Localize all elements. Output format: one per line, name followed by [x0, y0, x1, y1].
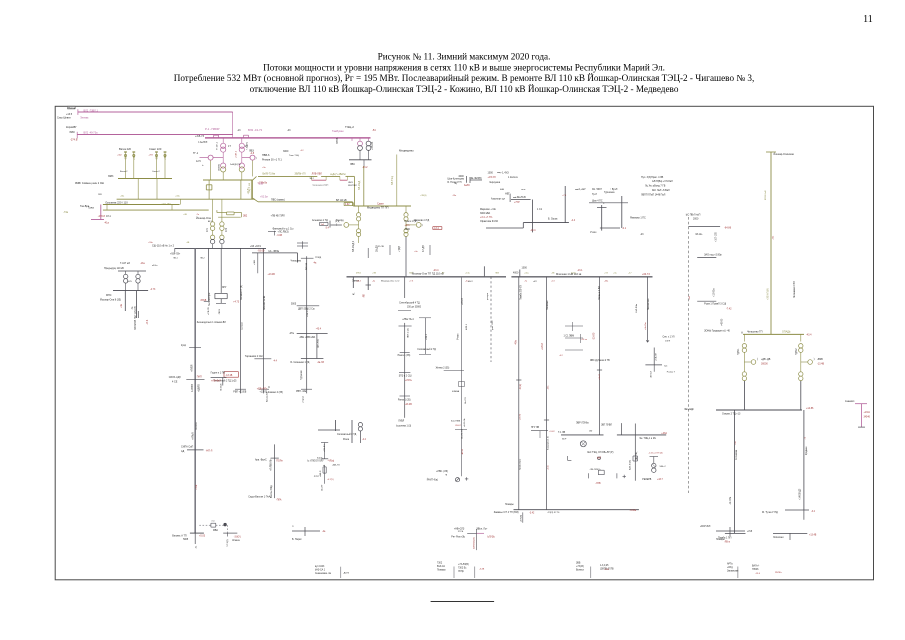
svg-text:Элеваа: Элеваа: [80, 116, 89, 119]
svg-text:⟩: ⟩: [422, 223, 423, 227]
svg-text:-19-7Ла: -19-7Ла: [730, 496, 732, 505]
svg-text:ЗПЗ и 2 СШ: ЗПЗ и 2 СШ: [399, 376, 412, 378]
svg-text:ТДН-1: ТДН-1: [738, 348, 740, 355]
svg-text:ЗАО под +2.80р: ЗАО под +2.80р: [704, 254, 722, 257]
svg-text:+ЛУВЛ: +ЛУВЛ: [191, 364, 193, 372]
svg-text:ТГ-1: ТГ-1: [193, 152, 199, 155]
svg-text:М. Ту ма У ПД: М. Ту ма У ПД: [762, 511, 778, 514]
svg-text:ЛВС: ЛВС: [350, 163, 355, 166]
svg-text:4 СЕ: 4 СЕ: [172, 381, 178, 384]
svg-text:⟶ -1.4УЗ: ⟶ -1.4УЗ: [497, 171, 509, 175]
svg-text:Медведево: Медведево: [399, 149, 414, 153]
svg-text:ВЛ-МЕД 2: ВЛ-МЕД 2: [352, 240, 355, 252]
svg-text:+13 Ла: +13 Ла: [248, 187, 250, 195]
svg-text:ОПАДЬ: ОПАДЬ: [782, 330, 791, 333]
svg-text:Азановп: Азановп: [845, 400, 855, 403]
svg-text:⟨+ д: ⟨+ д: [335, 220, 340, 223]
svg-text:-ВУЗ-Л: -ВУЗ-Л: [651, 370, 653, 378]
svg-text:рем. ЛЭП: рем. ЛЭП: [492, 320, 494, 330]
svg-text:+73(-В): +73(-В): [576, 566, 584, 568]
svg-text:-4.7(У): -4.7(У): [327, 479, 334, 481]
svg-text:МПС: МПС: [106, 294, 112, 297]
svg-text:пВ-Л: пВ-Л: [468, 281, 473, 283]
svg-text:-13.2: -13.2: [362, 166, 368, 169]
svg-text:ЭВС Дубники 2 ТВ: ЭВС Дубники 2 ТВ: [590, 360, 610, 362]
svg-text:2000: 2000: [693, 218, 699, 221]
svg-text:+Л-УЗ: +Л-УЗ: [520, 413, 522, 420]
svg-text:150 дп 30000: 150 дп 30000: [407, 306, 422, 308]
svg-text:Силикатный 8 ТД: Силикатный 8 ТД: [337, 433, 357, 436]
svg-text:Т-107 м3: Т-107 м3: [120, 262, 131, 265]
svg-text:+ЛВ(3): +ЛВ(3): [420, 195, 427, 197]
svg-text:7302 Ес: 7302 Ес: [458, 568, 467, 570]
svg-text:1000: 1000: [522, 267, 528, 270]
svg-text:+АВ-ЛЗ: +АВ-ЛЗ: [332, 463, 340, 466]
svg-text:Тань ТЭЦ: Тань ТЭЦ: [289, 155, 299, 157]
svg-text:-49а: -49а: [515, 340, 518, 345]
svg-text:+АЛ: +АЛ: [688, 295, 691, 300]
svg-text:+ЛЗ-В: +ЛЗ-В: [461, 298, 464, 305]
svg-text:+АПъЛ: +АПъЛ: [191, 432, 194, 440]
svg-text:+Л-В: +Л-В: [747, 531, 753, 533]
svg-text:⟶ 1,+ЕУ: ⟶ 1,+ЕУ: [575, 187, 586, 191]
svg-text:-3.8(У): -3.8(У): [234, 537, 241, 539]
svg-text:Руэм 1 ПравЛ 3 СШ: Руэм 1 ПравЛ 3 СШ: [704, 303, 726, 306]
svg-text:+13В: +13В: [258, 184, 264, 186]
svg-text:1000: 1000: [488, 172, 494, 175]
svg-text:Йошкар-Олинская: Йошкар-Олинская: [774, 153, 795, 156]
svg-text:+ЕВ-Л: +ЕВ-Л: [541, 343, 544, 350]
svg-text:+ЛС ЛВ(3): +ЛС ЛВ(3): [278, 232, 289, 234]
svg-text:+13.4В: +13.4В: [404, 404, 412, 406]
svg-text:1 Колхоз: 1 Колхоз: [508, 176, 518, 179]
svg-text:+13.та: +13.та: [581, 339, 588, 341]
svg-text:-13.4: -13.4: [147, 319, 149, 325]
svg-text:3000: 3000: [405, 228, 411, 231]
svg-text:ВЛ-ТЭЦ: ВЛ-ТЭЦ: [391, 176, 394, 185]
svg-text:ЛВУ-2 (3): ЛВУ-2 (3): [408, 328, 410, 338]
svg-text:+БСП-БЛ: +БСП-БЛ: [700, 525, 711, 528]
svg-text:⟩: ⟩: [814, 357, 815, 361]
svg-text:Кожино 4 (35): Кожино 4 (35): [268, 391, 283, 394]
svg-text:-АЧ73: -АЧ73: [343, 572, 350, 575]
svg-text:+ЛВ: +ЛВ: [372, 273, 377, 275]
svg-text:⟂: ⟂: [603, 202, 605, 205]
svg-text:11: 11: [863, 14, 873, 25]
svg-text:4.92: 4.92: [345, 204, 350, 206]
svg-text:Чернушка: Чернушка: [489, 181, 501, 184]
svg-text:-13а: -13а: [140, 263, 145, 265]
svg-text:+ЛЗ-ЛЗ: +ЛЗ-ЛЗ: [324, 444, 326, 452]
svg-text:АТ1: АТ1: [206, 227, 209, 232]
svg-text:Пул. 3(Х)Прап. 4 ЛВ: Пул. 3(Х)Прап. 4 ЛВ: [641, 176, 664, 179]
svg-text:ВЛ2 -73ВЛ.1: ВЛ2 -73ВЛ.1: [84, 109, 99, 112]
svg-text:⟨: ⟨: [336, 223, 337, 227]
svg-text:-4.73: -4.73: [150, 289, 156, 291]
svg-text:-ПЛА: -ПЛА: [276, 499, 282, 502]
svg-text:-41а: -41а: [104, 222, 109, 225]
svg-text:+ЛВ-УЗ: +ЛВ-УЗ: [307, 309, 309, 317]
svg-text:ЛЛУГ: ЛЛУГ: [314, 476, 320, 478]
svg-text:+14 ЕВ-ДЗ: +14 ЕВ-ДЗ: [800, 488, 802, 500]
svg-text:+3.42: +3.42: [549, 431, 555, 433]
svg-text:МВА: МВА: [213, 529, 218, 532]
svg-text:ЧЕг+ЕДп: ЧЕг+ЕДп: [684, 408, 695, 411]
svg-text:ЗГУБ: ЗГУБ: [458, 531, 464, 533]
svg-text:Помары: Помары: [437, 570, 446, 572]
svg-text:-ЛЗ(В): -ЛЗ(В): [520, 384, 522, 390]
svg-text:ВЛ2 -43-73: ВЛ2 -43-73: [248, 128, 263, 132]
svg-text:4Н52: 4Н52: [356, 273, 362, 275]
svg-text:Рн+ Роил-ЗЬ: Рн+ Роил-ЗЬ: [451, 536, 465, 538]
svg-text:3000 кВА: 3000 кВА: [480, 212, 491, 215]
svg-text:+ЛУВ: +ЛУВ: [196, 484, 198, 490]
svg-text:РВП +13.ЕВ: РВП +13.ЕВ: [233, 392, 246, 394]
svg-text:Йошкар-Ола: Йошкар-Ола: [196, 217, 211, 220]
svg-text:+43А: +43А: [661, 432, 667, 435]
svg-text:Т-1 ЛВ: Т-1 ЛВ: [558, 432, 566, 434]
svg-text:+Л ЛВ(АЛ)+: +Л ЛВ(АЛ)+: [270, 458, 273, 471]
svg-text:Λ: Λ: [741, 331, 743, 335]
svg-text:-4.4: -4.4: [571, 219, 576, 222]
svg-text:РЕЗЕРВ: РЕЗЕРВ: [642, 479, 651, 481]
svg-text:ТЭЦ-2: ТЭЦ-2: [345, 125, 354, 129]
svg-text:-ЧЛ(а): -ЧЛ(а): [328, 460, 335, 462]
svg-text:+ЗВ1: +ЗВ1: [254, 259, 256, 265]
svg-text:ЗЗЛ-ЛЛм: ЗЗЛ-ЛЛм: [636, 303, 638, 313]
svg-text:ЗЬ-ЛЗ-УЗ: ЗЬ-ЛЗ-УЗ: [461, 429, 463, 439]
svg-text:-302: -302: [126, 155, 128, 160]
svg-text:Λ: Λ: [268, 385, 270, 389]
svg-text:-13.4В: -13.4В: [817, 363, 824, 366]
svg-text:Спас-Шевел: Спас-Шевел: [57, 116, 71, 119]
svg-text:-13.1а 0ТЛ (3): -13.1а 0ТЛ (3): [649, 453, 663, 455]
svg-text:Ронга: Ронга: [343, 439, 350, 441]
svg-text:Ял. 5697: Ял. 5697: [592, 188, 602, 191]
svg-text:ВАЛ+/-: ВАЛ+/-: [752, 565, 760, 568]
svg-text:2xАТДЦТН: 2xАТДЦТН: [230, 163, 241, 166]
svg-text:Шап 4 ПС: Шап 4 ПС: [592, 201, 603, 203]
svg-text:Сдвиг: Сдвиг: [377, 203, 384, 206]
svg-text:Медведево ТП ПП: Медведево ТП ПП: [367, 207, 389, 210]
svg-text:+ПВ 4В 73РЛ: +ПВ 4В 73РЛ: [271, 216, 286, 218]
svg-text:-2Тм: -2Тм: [289, 333, 294, 335]
svg-text:◄: ◄: [445, 474, 447, 477]
svg-text:+ЕУ(Л): +ЕУ(Л): [521, 515, 523, 522]
svg-text:ВЛ 110 кВ: ВЛ 110 кВ: [765, 190, 767, 200]
svg-text:ПАП: ПАП: [197, 376, 202, 379]
svg-text:-293: -293: [157, 155, 159, 160]
svg-text:+ЛУЗ+: +ЛУЗ+: [405, 380, 413, 382]
svg-text:Закамье С/Т 4 ТП (ЮЗ): Закамье С/Т 4 ТП (ЮЗ): [494, 512, 519, 514]
svg-text:Лн-ВчЛ: Лн-ВчЛ: [221, 383, 223, 391]
svg-text:▲: ▲: [323, 464, 325, 467]
svg-text:Апшак: Апшак: [305, 262, 308, 270]
svg-text:1-3,0,25: 1-3,0,25: [600, 565, 609, 567]
svg-text:-4.1: -4.1: [622, 227, 627, 230]
svg-text:+92.5м: +92.5м: [260, 196, 268, 199]
svg-text:Вятка: Вятка: [68, 106, 75, 110]
svg-text:РЕЛЕ+: РЕЛЕ+: [775, 572, 783, 574]
svg-text:+ЬУЗ-Ль: +ЬУЗ-Ль: [464, 417, 466, 427]
svg-text:Звенигово: Звенигово: [647, 298, 650, 310]
svg-text:Силикат 8 ТД: Силикат 8 ТД: [241, 285, 243, 300]
svg-text:ВчЗ-СА: ВчЗ-СА: [437, 565, 445, 568]
svg-text:РВП -43а: РВП -43а: [296, 391, 307, 393]
svg-text:35-ЛВ: 35-ЛВ: [378, 246, 384, 248]
svg-text:ЗЬ-ЛУ: ЗЬ-ЛУ: [322, 484, 324, 491]
svg-text:ЛВПП ГЛаП 1448 ПаЛ: ЛВПП ГЛаП 1448 ПаЛ: [641, 194, 666, 197]
svg-text:4000: 4000: [458, 175, 464, 178]
svg-text:ЗРУ: ЗРУ: [222, 287, 227, 289]
svg-text:⟩: ⟩: [256, 156, 257, 160]
svg-text:вуп 1643: вуп 1643: [315, 566, 325, 568]
svg-text:Б. Орша: Б. Орша: [548, 218, 558, 221]
svg-text:АЛгП(Ва) +УЛ-ЛаЛ: АЛгП(Ва) +УЛ-ЛаЛ: [652, 180, 673, 183]
svg-text:ЬкЛ: ЬкЛ: [597, 458, 602, 460]
svg-text:Эн. ТЭЦ-1 и Мз: Эн. ТЭЦ-1 и Мз: [639, 438, 656, 440]
svg-text:-3.42а: -3.42а: [630, 510, 637, 512]
svg-text:Сосновка: Сосновка: [736, 449, 738, 460]
svg-text:ГТ-АТ-1: ГТ-АТ-1: [216, 141, 219, 150]
svg-text:Б. Парат: Б. Парат: [292, 538, 303, 541]
svg-text:+41а-26а: +41а-26а: [161, 203, 172, 206]
svg-text:2x25: 2x25: [127, 281, 133, 283]
svg-text:ЦВг-ЛЗм: ЦВг-ЛЗм: [318, 339, 320, 348]
svg-text:ЗнС ТЭЦ, ОЛ ОБ+ЛР (Р): ЗнС ТЭЦ, ОЛ ОБ+ЛР (Р): [587, 452, 613, 454]
svg-text:+АВ=ВкЛ: +АВ=ВкЛ: [211, 380, 221, 383]
svg-text:+ЕВ+ЛЛ+: +ЕВ+ЛЛ+: [257, 388, 268, 391]
svg-text:СШ-Л: СШ-Л: [455, 425, 461, 427]
svg-text:ЬаЛС: ЬаЛС: [464, 185, 470, 187]
svg-text:+АВ-Л: +АВ-Л: [319, 470, 322, 477]
svg-text:+83(-): +83(-): [727, 567, 733, 569]
svg-text:СШ-110 кВ № 1 и 2: СШ-110 кВ № 1 и 2: [152, 245, 175, 248]
svg-text:-8МВ: -8МВ: [817, 358, 823, 361]
svg-text:ЬС ПВгЛ №П: ЬС ПВгЛ №П: [686, 214, 701, 217]
svg-text:Так-Вра: Так-Вра: [80, 205, 90, 208]
svg-text:Б. Ноля 4 ТП: Б. Ноля 4 ТП: [448, 182, 462, 184]
svg-text:7302: 7302: [437, 563, 443, 565]
svg-text:+43.7: +43.7: [657, 479, 664, 481]
svg-text:ЗВБ: ЗВБ: [576, 563, 581, 565]
svg-text:+14.86: +14.86: [806, 407, 814, 410]
svg-text:34546: 34546: [864, 417, 871, 419]
svg-text:+ЛВС (-ЛЗ): +ЛВС (-ЛЗ): [436, 471, 448, 473]
svg-text:+41а: +41а: [134, 154, 136, 160]
svg-text:+64.73: +64.73: [642, 273, 650, 276]
svg-text:+УЗ-УЛ: +УЗ-УЛ: [488, 176, 497, 179]
svg-text:Ьсшнева 1 (3): Ьсшнева 1 (3): [396, 425, 411, 427]
svg-text:47-ДВ: 47-ДВ: [422, 245, 425, 252]
svg-text:Киров/ВГ: Киров/ВГ: [66, 126, 77, 129]
svg-text:Годен и 1 ПП: Годен и 1 ПП: [211, 372, 226, 375]
svg-text:Сев. з 1 УЛ: Сев. з 1 УЛ: [663, 337, 675, 339]
svg-text:Ара -ВалС: Ара -ВалС: [255, 459, 267, 462]
svg-text:Апшак-Пеляк: Апшак-Пеляк: [263, 295, 266, 310]
svg-text:Совет-2: Совет-2: [152, 171, 160, 173]
svg-text:3983: 3983: [108, 175, 114, 178]
svg-text:ЗВУ: ЗВУ: [98, 194, 103, 196]
svg-text:+4В: +4В: [183, 214, 187, 216]
svg-text:Кокшайск 1 В: Кокшайск 1 В: [547, 436, 550, 450]
svg-text:+3.4 +7.7%: +3.4 +7.7%: [480, 216, 493, 219]
svg-text:Зеленодольск 1 Апаево-ВЛ: Зеленодольск 1 Апаево-ВЛ: [197, 321, 227, 324]
svg-text:-13.4: -13.4: [356, 281, 362, 283]
svg-text:Лопатино: Лопатино: [773, 536, 784, 539]
svg-text:Туршинка: Туршинка: [604, 192, 615, 194]
svg-text:+43-80: +43-80: [722, 318, 724, 326]
svg-text:ТДН-2: ТДН-2: [796, 348, 798, 355]
svg-text:Учхоз: Учхоз: [590, 231, 596, 234]
svg-text:-АП-В: -АП-В: [461, 449, 464, 455]
svg-text:АД: АД: [181, 450, 185, 453]
svg-text:+4.73: +4.73: [233, 302, 240, 304]
svg-text:Пемба ЕВ-УЗ: Пемба ЕВ-УЗ: [520, 285, 523, 300]
svg-text:ЧЕ-ЧЕЛ(В): ЧЕ-ЧЕЛ(В): [470, 178, 482, 180]
svg-text:-7.42: -7.42: [726, 308, 732, 311]
svg-text:Помары: Помары: [716, 539, 725, 541]
svg-text:4НВ: 4НВ: [500, 189, 505, 191]
svg-text:+ЗВ-ЛЗ: +ЗВ-ЛЗ: [371, 141, 374, 150]
svg-text:Помары: Помары: [505, 504, 514, 506]
svg-text:-3.4В: -3.4В: [479, 569, 485, 571]
svg-text:СШ 150: СШ 150: [196, 422, 198, 430]
svg-text:Лц Хв. рВонд 7 ГВ: Лц Хв. рВонд 7 ГВ: [645, 185, 666, 188]
svg-text:ЗОНЫ Градация и1 -40: ЗОНЫ Градация и1 -40: [704, 330, 730, 333]
svg-text:+4а-Л: +4а-Л: [599, 374, 601, 380]
svg-text:ЗВ2: ЗВ2: [243, 216, 248, 218]
svg-text:-ЛВ: -ЛВ: [364, 294, 366, 298]
svg-text:-23-ЛЗ: -23-ЛЗ: [593, 332, 596, 340]
svg-text:ПГУ ЛВ: ПГУ ЛВ: [531, 427, 539, 429]
svg-text:Вятка-2: Вятка-2: [120, 171, 128, 173]
svg-text:+3-В-73: +3-В-73: [195, 135, 205, 138]
svg-text:Семеновка -4а: Семеновка -4а: [315, 573, 332, 575]
svg-text:Женка 2 (35): Женка 2 (35): [436, 368, 450, 370]
svg-text:ЛЛВ-ЛВЛ: ЛЛВ-ЛВЛ: [312, 173, 323, 176]
svg-text:-270.8: -270.8: [98, 215, 106, 218]
svg-text:+4а-Лм: +4а-Лм: [645, 322, 647, 330]
svg-text:Потребление 532 МВт (основной: Потребление 532 МВт (основной прогноз), …: [174, 73, 755, 83]
svg-text:пВг: пВг: [589, 431, 593, 433]
svg-text:АВЬ -2586 кВА: АВЬ -2586 кВА: [300, 336, 316, 339]
svg-text:-73а: -73а: [63, 211, 69, 214]
svg-text:Резерв 30 +1 П.1: Резерв 30 +1 П.1: [262, 159, 282, 162]
svg-text:+13 т: +13 т: [405, 224, 412, 227]
svg-text:+93б-ЛЗ+: +93б-ЛЗ+: [170, 254, 181, 256]
svg-text:+: +: [202, 163, 204, 167]
svg-text:-93.69: -93.69: [258, 250, 265, 253]
svg-text:+ЦВЛО: +ЦВЛО: [198, 384, 200, 392]
svg-text:-2Л(Л) 37.76: -2Л(Л) 37.76: [547, 512, 560, 514]
svg-text:+40а: +40а: [165, 154, 167, 160]
svg-text:Сентябрьский 4 ТД: Сентябрьский 4 ТД: [399, 302, 420, 305]
svg-text:-3.42: -3.42: [529, 512, 535, 514]
svg-text:+5.03: +5.03: [199, 535, 206, 538]
svg-text:отключение ВЛ 110 кВ Йошкар-Ол: отключение ВЛ 110 кВ Йошкар-Олинская ТЭЦ…: [250, 84, 679, 94]
svg-text:Учхоз: Учхоз: [457, 334, 460, 340]
svg-text:Ронга 1 (35): Ронга 1 (35): [398, 400, 411, 402]
svg-text:+НВ+СЛЗ: +НВ+СЛЗ: [454, 528, 465, 530]
svg-text:4000: 4000: [513, 272, 519, 275]
svg-text:ВЛ 110 кВ: ВЛ 110 кВ: [336, 200, 347, 202]
svg-text:ЛУПр: ЛУПр: [458, 571, 465, 573]
svg-text:Кундыш: Кундыш: [806, 446, 808, 455]
svg-text:АРТа: АРТа: [727, 563, 733, 566]
svg-text:Силикат: Силикат: [242, 322, 244, 330]
svg-text:Λ под: Λ под: [315, 257, 322, 259]
svg-text:Туруново: Туруново: [301, 369, 303, 380]
svg-text:ЬЛУЗЬ: ЬЛУЗЬ: [488, 536, 496, 538]
svg-text:АТ-1: АТ-1: [106, 215, 112, 218]
svg-text:57.3(2): 57.3(2): [227, 539, 229, 546]
svg-text:Чигашево: Чигашево: [291, 261, 302, 263]
svg-text:+13.4В: +13.4В: [268, 274, 276, 276]
svg-text:Рынок 7: Рынок 7: [667, 372, 676, 374]
svg-text:-3.4В: -3.4В: [277, 235, 283, 237]
svg-text:ЬЬР: ЬЬР: [562, 439, 567, 441]
svg-text:ВХУПВЛ: ВХУПВЛ: [348, 185, 357, 187]
svg-text:Б.-Чигашево 1 ТД: Б.-Чигашево 1 ТД: [291, 362, 310, 364]
svg-text:Ронга 1 (35): Ронга 1 (35): [398, 355, 411, 357]
svg-text:+СВ-ЛУ: +СВ-ЛУ: [208, 307, 210, 315]
svg-text:40МВА: 40МВА: [452, 390, 460, 393]
svg-text:ЬЬ -ЧВЛм: ЬЬ -ЧВЛм: [269, 251, 280, 253]
svg-text:НЕГ: НЕГ: [505, 193, 510, 196]
svg-text:Ронга 1 ГД: Ронга 1 ГД: [405, 220, 417, 223]
svg-text:ЬаЬЬ: ЬаЬЬ: [317, 457, 323, 459]
svg-text:-13а: -13а: [548, 385, 550, 390]
svg-text:-13.1: -13.1: [577, 269, 583, 272]
svg-text:+13.4В: +13.4В: [809, 535, 817, 537]
svg-text:Р-1 -73ВЗР: Р-1 -73ВЗР: [205, 127, 220, 131]
svg-text:+107-155: +107-155: [716, 232, 718, 242]
svg-text:12.5: 12.5: [196, 160, 201, 163]
svg-text:Совет 220: Совет 220: [149, 147, 162, 151]
svg-text:-4а-ЛЗ: -4а-ЛЗ: [317, 362, 325, 364]
svg-text:Силикатный 2 ТД: Силикатный 2 ТД: [417, 348, 436, 351]
svg-text:ЗПВБ: ЗПВБ: [336, 137, 339, 144]
svg-text:ж-Дц7 +4ВкЛм: ж-Дц7 +4ВкЛм: [330, 174, 346, 176]
svg-text:-13.4: -13.4: [755, 573, 761, 575]
svg-text:Закамская: Закамская: [727, 571, 739, 573]
svg-text:-274.В: -274.В: [70, 138, 78, 141]
svg-text:БкЛ9-73.6м: БкЛ9-73.6м: [263, 173, 276, 176]
svg-text:+СВ-ЛУ: +СВ-ЛУ: [656, 353, 658, 361]
svg-text:+ЛВ-2: +ЛВ-2: [426, 333, 428, 340]
svg-text:Нолька 2 ВЛ: Нолька 2 ВЛ: [598, 286, 601, 300]
svg-text:ЗЕ.2: ЗЕ.2: [309, 178, 314, 180]
svg-text:Якимово 1 ПС: Якимово 1 ПС: [630, 217, 646, 220]
svg-text:-4ЛВ: -4ЛВ: [604, 569, 609, 571]
svg-text:СИЛА АДУ: СИЛА АДУ: [169, 376, 182, 379]
svg-text:Офактивн 94.60: Офактивн 94.60: [480, 220, 499, 223]
svg-text:+ЗЕ-АГ(М): +ЗЕ-АГ(М): [767, 288, 770, 300]
svg-text:-23.4: -23.4: [433, 269, 439, 272]
svg-text:АТ2: АТ2: [225, 227, 228, 232]
svg-text:580+С: 580+С: [660, 466, 667, 468]
svg-text:Сады-Вахтан 1 ПчА: Сады-Вахтан 1 ПчА: [248, 496, 270, 499]
svg-text:Тамбукан: Тамбукан: [332, 129, 344, 133]
svg-text:1 С1: 1 С1: [537, 208, 543, 211]
svg-text:ЛУВЛ: ЛУВЛ: [398, 421, 404, 423]
svg-text:Оршанка 220 / 110: Оршанка 220 / 110: [105, 200, 128, 204]
svg-text:ЬЛИЛЗЬ(Л): ЬЛИЛЗЬ(Л): [474, 537, 476, 549]
svg-text:Рисунок № 11. Зимний максимум: Рисунок № 11. Зимний максимум 2020 года.: [378, 51, 551, 61]
svg-text:Чигашево-ЛЭП: Чигашево-ЛЭП: [312, 185, 328, 187]
svg-text:-43.4: -43.4: [316, 329, 322, 331]
